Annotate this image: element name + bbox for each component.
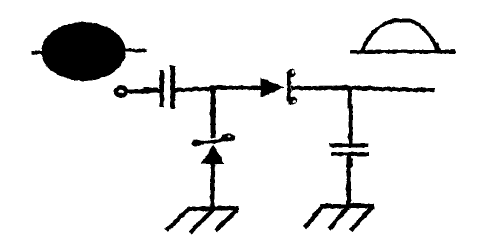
input terminal (node IN) xyxy=(113,87,126,95)
ground (left) xyxy=(166,208,238,233)
ground (right) xyxy=(304,205,374,230)
wire node B down to C2 xyxy=(347,88,352,144)
input waveform scribble (filled sine blob with wire stubs) xyxy=(31,22,147,81)
wire node A down to D2 cathode xyxy=(210,88,214,139)
output waveform (half-sine hump on baseline) xyxy=(349,20,455,52)
wire D1 cathode through node B to output end xyxy=(291,87,434,89)
diode D1 (series diode, anode left, filled triangle + hooked cathode bar) xyxy=(260,69,297,105)
wire C2 down to right ground xyxy=(346,155,351,205)
wire IN terminal to C1 xyxy=(127,90,159,91)
wire D2 anode down to left ground xyxy=(210,163,214,208)
capacitor C1 (series coupling cap, two vertical plates) xyxy=(159,65,174,108)
capacitor C2 (shunt smoothing cap, two horizontal plates) xyxy=(329,143,369,155)
wire C1 to node A to D1 anode xyxy=(174,87,261,90)
diode D2 (shunt diode, cathode bar up, filled triangle pointing up) xyxy=(191,133,235,163)
